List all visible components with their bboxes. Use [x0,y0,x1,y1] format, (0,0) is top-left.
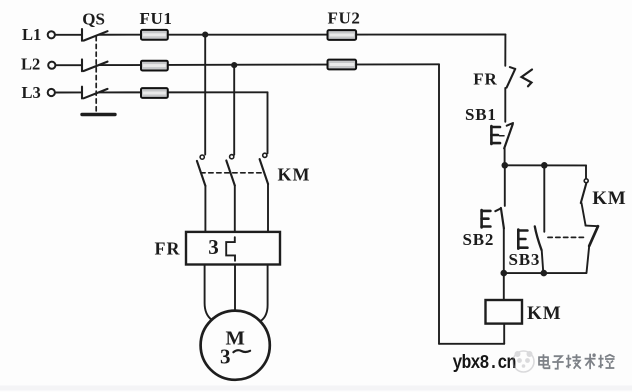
svg-text:L3: L3 [22,83,41,102]
svg-text:SB1: SB1 [465,105,497,124]
svg-text:3: 3 [208,235,219,259]
svg-text:FR: FR [155,239,181,259]
svg-text:ybx8.cn: ybx8.cn [453,353,516,375]
svg-text:SB3: SB3 [509,250,541,269]
svg-text:FR: FR [473,69,497,88]
svg-text:KM: KM [592,188,626,209]
svg-text:FU1: FU1 [140,9,173,28]
svg-text:L2: L2 [21,55,40,74]
svg-text:3: 3 [220,344,231,368]
svg-text:KM: KM [278,164,311,184]
svg-text:L1: L1 [22,25,41,44]
svg-text:QS: QS [82,10,105,29]
svg-text:KM: KM [527,303,562,324]
svg-text:FU2: FU2 [328,9,361,28]
svg-text:SB2: SB2 [463,230,495,249]
